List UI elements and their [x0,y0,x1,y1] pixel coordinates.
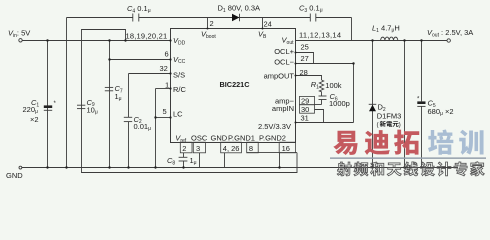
svg-text:D1 80V, 0.3A: D1 80V, 0.3A [218,4,261,14]
svg-text:Vboot: Vboot [201,30,216,40]
svg-text:1: 1 [165,81,169,90]
svg-text:BIC221C: BIC221C [220,80,251,89]
pin 29 amp- box and wire [300,96,322,105]
capacitor C8 1u [167,156,197,166]
svg-text:OSC: OSC [191,134,208,143]
pin label 32 S/S [160,64,186,80]
node Vout terminal [427,28,473,42]
pin label 1 R/C [165,81,187,94]
svg-text:6: 6 [165,50,169,59]
svg-text:GND: GND [211,134,228,143]
svg-text:LC: LC [173,110,183,119]
svg-text:Vin: 5V: Vin: 5V [8,29,30,40]
label D2 maker (新電元) [380,121,399,127]
capacitor C1 220u x2 (polarized) [23,98,57,124]
svg-text:Vout : 2.5V, 3A: Vout : 2.5V, 3A [427,28,473,39]
pin box 4,26 (GND) [221,142,242,153]
svg-text:S/S: S/S [173,71,185,80]
svg-text:Vout: Vout [282,36,295,46]
svg-text:C8: C8 [167,156,175,166]
pin 24 VB stub [258,18,272,40]
svg-text:(: ( [377,121,380,128]
capacitor C5 680u x2 (polarized) [417,97,454,117]
wire pin16 PGND2 to rail1 [279,153,281,168]
svg-text:100k: 100k [325,81,342,90]
node Vin terminal [8,29,30,43]
capacitor C6 1000p [319,92,350,108]
svg-text:32: 32 [160,64,168,73]
svg-text:GND: GND [6,171,23,180]
svg-text:*: * [54,101,57,107]
watermark underline [330,157,486,159]
inductor L1 4.7uH [372,24,400,41]
svg-text:0.01μ: 0.01μ [134,122,152,132]
svg-text:24: 24 [264,20,272,29]
diode D2 D1FM3 [369,103,402,129]
wire pins 4,26 GND to rail [224,153,226,168]
svg-text:2: 2 [210,19,214,28]
capacitor C2 0.01u [124,115,151,132]
wire LC pin5 [156,117,171,119]
watermark logo 培训 (blue) [428,130,483,155]
svg-text:5: 5 [163,107,167,116]
wire C1 branch vertical [47,41,49,168]
svg-text:L1 4.7μH: L1 4.7μH [372,24,400,34]
pin 30 ampIN box and wire [300,105,324,123]
svg-text:1000p: 1000p [329,99,350,108]
svg-text:VDD: VDD [173,36,186,46]
svg-text:16: 16 [282,144,290,153]
svg-text:2.5V/3.3V: 2.5V/3.3V [258,122,291,131]
wire top boot rail with C4 D1 C3 [67,18,352,41]
svg-text:×2: ×2 [30,115,39,124]
svg-text:P.GND2: P.GND2 [259,134,286,143]
wire feedback vertical x=353.5 [353,64,355,123]
node GND terminal [6,166,23,180]
svg-text:VB: VB [258,30,267,40]
svg-text:31: 31 [301,114,309,123]
svg-text:OCL+: OCL+ [274,47,294,56]
watermark logo 易迪拓 (red) [333,130,419,155]
wire Vin main rail to IC pin 18,19,20,21 [22,40,170,42]
svg-text:680μ ×2: 680μ ×2 [428,107,454,117]
pin box 8 (P.GND1) [247,142,259,153]
svg-text:ampIN: ampIN [272,104,294,113]
svg-text:2: 2 [182,144,186,153]
svg-text:25: 25 [301,43,309,52]
wire D2 branch vertical [372,41,374,168]
pin 31 wire (2.5V/3.3V select) [296,114,354,123]
wire pin3 OSC to GND [199,153,201,168]
svg-text:VCC: VCC [173,55,186,65]
svg-text:C4 0.1μ: C4 0.1μ [127,4,151,14]
wire GND rail1 [22,167,458,169]
capacitor C4 0.1u [127,4,151,22]
svg-text:D1FM3: D1FM3 [377,111,402,120]
wire PGND horizontal from pin8 box to rail2 corner [247,152,298,154]
svg-text:R/C: R/C [173,85,187,94]
pin label 6 Vcc [165,50,186,66]
pin 27 OCL- wire [296,54,354,63]
svg-text:OCL−: OCL− [274,58,294,67]
wire C5b branch vertical [421,41,423,168]
wire pin2 Vref to C8 to GND [183,153,185,168]
svg-text:18,19,20,21: 18,19,20,21 [126,32,168,41]
wire Vcc pin6 horizontal [110,59,171,61]
svg-text:): ) [399,121,401,128]
IC U1 BIC221C body [171,29,296,143]
svg-text:R1: R1 [311,80,319,90]
wire Vout switch-node rail (pins 11-14 to terminal) [296,40,448,42]
svg-text:1μ: 1μ [190,156,197,166]
diode D1 80V 0.3A [218,4,261,22]
wire Vdd loop (x=81 up to y=29 over to x=125 down to main wire) [82,30,126,168]
pin 25 OCL+ wire wrap [296,43,314,64]
wire C5a branch vertical [404,41,406,168]
svg-text:C3 0.1μ: C3 0.1μ [299,4,323,14]
svg-text:10μ: 10μ [87,105,98,115]
svg-text:P.GND1: P.GND1 [228,134,255,143]
svg-text:11,12,13,14: 11,12,13,14 [299,31,341,40]
IC right inner labels [264,36,295,113]
wire C4 top rail branch vertical (x=66) [66,18,68,168]
wire R/C pin1 branch (x=155) [156,89,171,168]
pin 2 Vboot stub [201,18,216,40]
resistor R1 100k [311,80,342,96]
pin 28 ampOUT wire to R1 [296,68,322,80]
pin box 16 (P.GND2) [279,142,295,153]
pin box 3 (OSC) [193,142,205,153]
wire Vcc branch vertical (x=109) [109,41,111,168]
svg-text:30: 30 [301,105,309,114]
capacitor C9 10u [77,98,98,116]
svg-text:4, 26: 4, 26 [223,144,240,153]
svg-text:8: 8 [249,144,253,153]
svg-text:ampOUT: ampOUT [264,72,295,81]
pin label 18,19,20,21 Vdd [126,32,186,47]
capacitor C7 1u [105,84,123,102]
svg-text:27: 27 [301,54,309,63]
IC bottom labels Vref OSC GND P.GND1 P.GND2 [175,122,291,144]
svg-text:3: 3 [196,144,200,153]
pin box 2 (Vref) [180,142,192,153]
pin label 5 LC [163,107,184,119]
capacitor C3 0.1u [299,4,323,22]
wire GND rail2 (P.GND return loop) [82,153,298,173]
watermark outline slogan 射频和天线设计专家 [337,162,484,176]
wire S/S branch (x=128) pin 32 [129,74,171,168]
